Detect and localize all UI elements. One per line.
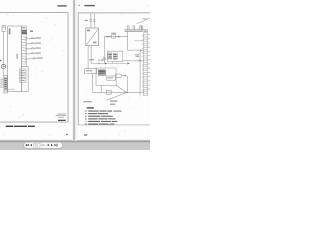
- arrow on top bus: [107, 36, 109, 38]
- relay K2 coil box: [19, 69, 26, 73]
- TB2 wire label marks right side: [148, 34, 150, 89]
- connector TB1 header top right: [125, 26, 147, 32]
- terminal ticks on L1 N1: [90, 20, 96, 22]
- label net name: [110, 104, 115, 105]
- wire U6 to TB2: [123, 60, 144, 62]
- power supply PS1 (right page): [86, 28, 99, 46]
- arrow on middle bus: [105, 63, 107, 65]
- fuse F1 on top bus: [111, 33, 116, 38]
- module A2 extension box: [22, 67, 29, 92]
- relay K4 coil box: [19, 79, 26, 83]
- wire from M1 down: [3, 70, 5, 76]
- label above middle bus: [89, 59, 94, 60]
- wire middle bus: [91, 63, 129, 65]
- switch S5 with wire: [26, 58, 42, 59]
- connector P2 mating plug dark block: [22, 30, 27, 34]
- wire strip bottom entry: [135, 91, 143, 93]
- vertical bus at strip: [139, 50, 141, 95]
- label 2 above middle bus: [98, 60, 103, 61]
- wire stub row 5: [0, 86, 4, 88]
- wire stub row 3: [0, 82, 4, 84]
- relay K1 small box top left: [2, 26, 6, 32]
- label GND note: [110, 101, 117, 102]
- arrow at end of middle bus: [128, 63, 130, 65]
- motor M1 circle: [1, 64, 5, 68]
- terminal strip TB2: [143, 33, 147, 96]
- label left lower: [83, 101, 92, 102]
- box U5 right module: [115, 74, 121, 77]
- wire from U5 arrow down to junction: [127, 76, 129, 93]
- wire from U5 right with arrow: [121, 75, 126, 77]
- label A1 center vertical text: [17, 54, 18, 59]
- terminal strip TB3: [4, 76, 7, 94]
- module A1 main control board (left page): [8, 26, 22, 92]
- wire stub row 1: [0, 78, 4, 80]
- label TB2 designator: [135, 54, 139, 56]
- wire to terminal strip row B: [134, 40, 143, 42]
- label A1 vertical text: [9, 28, 11, 34]
- label P2: [30, 31, 33, 32]
- box U2 input module: [85, 69, 97, 74]
- wire from TB1 down: [127, 32, 129, 51]
- node dot on top bus: [109, 36, 110, 37]
- wire to terminal strip row A: [128, 49, 144, 51]
- wire L1 from frame top to PS1: [90, 13, 92, 28]
- switch S4 with wire: [26, 53, 40, 54]
- TB2 pin number marks: [142, 35, 143, 90]
- wire N1 from frame top to PS1: [93, 13, 95, 28]
- relay K3 coil box: [19, 74, 26, 78]
- label J2 pin 1 mark: [22, 27, 25, 28]
- wire from K1 down: [3, 32, 5, 65]
- label left edge mark: [0, 60, 1, 61]
- wire from U2 down: [92, 74, 94, 93]
- wire TB3 to A1: [7, 88, 15, 90]
- wire stub row 2: [0, 80, 4, 82]
- switch S1 with wire: [26, 37, 40, 38]
- wire stub row 4: [0, 84, 4, 86]
- group box U3 outline: [96, 68, 116, 85]
- box F2 on bottom bus: [106, 90, 111, 94]
- connector J2 terminal column on A1: [22, 26, 27, 67]
- box U4 small module: [107, 76, 116, 80]
- arrow on row A wire: [140, 49, 142, 51]
- lamp DS1 circle on drop wire: [103, 58, 105, 60]
- tick on middle bus: [98, 62, 100, 64]
- wire drop from top bus at left end: [103, 37, 105, 64]
- wire PS1 output right: [90, 46, 92, 64]
- arrow on bottom bus: [126, 92, 128, 94]
- wire diagonal from U3 corner to junction: [116, 85, 126, 92]
- tick on U6-TB2 wire: [139, 60, 141, 62]
- wire U6 to bus: [112, 62, 114, 64]
- wire from K5 down: [100, 85, 102, 92]
- arrow 2 on top bus: [118, 36, 120, 38]
- module U6 dual relay cluster: [107, 51, 123, 61]
- wire diagonal from junction down to label: [107, 93, 127, 101]
- wire top bus: [104, 36, 128, 38]
- switch S2 with wire: [26, 43, 40, 44]
- wire PS1 output left: [87, 46, 89, 69]
- relay K5 dark block: [98, 70, 105, 75]
- label J1: [85, 20, 88, 21]
- switch S3 with wire: [26, 48, 40, 49]
- wire bottom bus: [93, 91, 136, 93]
